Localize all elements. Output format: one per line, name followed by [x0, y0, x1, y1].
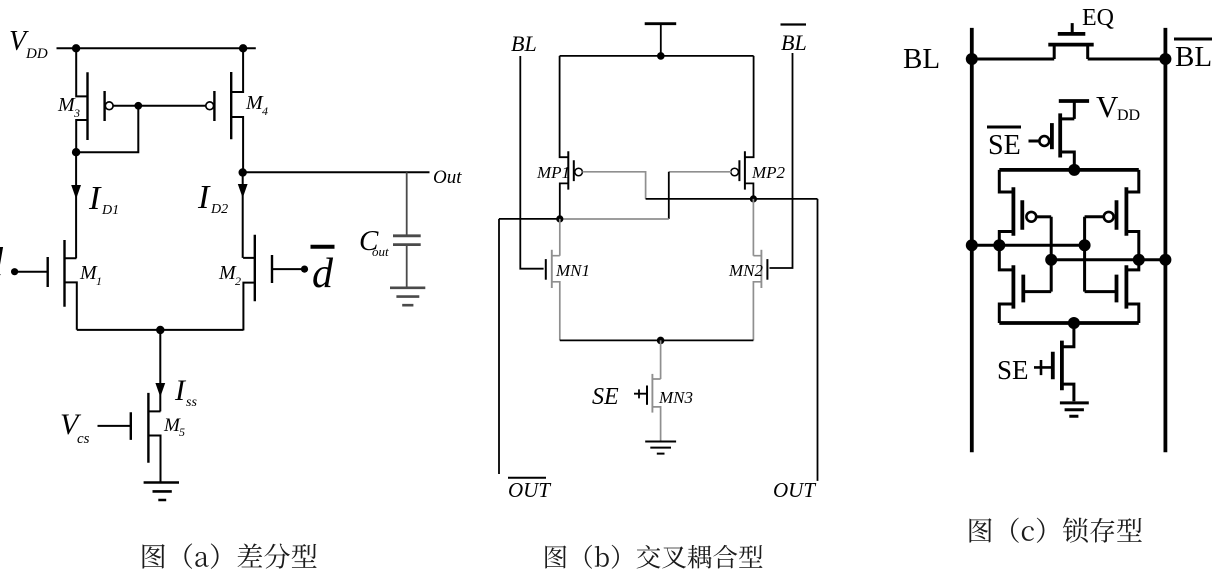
svg-text:Out: Out: [433, 167, 462, 188]
svg-text:SE: SE: [592, 384, 619, 410]
transistor MN1: [546, 219, 590, 341]
wire BLbar column: [770, 53, 793, 268]
wire M5 gate input: [98, 425, 131, 427]
power VDD tee: [1059, 99, 1089, 103]
svg-text:ss: ss: [186, 395, 197, 410]
svg-text:d: d: [0, 239, 4, 284]
wire left gates column: [1050, 217, 1053, 292]
wire Out: [243, 171, 430, 173]
wire VDD rail: [57, 47, 256, 49]
svg-text:D1: D1: [101, 203, 119, 218]
junction node OUTbar: [556, 215, 563, 222]
svg-text:4: 4: [262, 104, 268, 118]
svg-text:BL: BL: [781, 30, 807, 55]
wire M1 gate input: [15, 271, 48, 273]
wire latch top rail: [999, 168, 1139, 172]
svg-text:D2: D2: [210, 202, 228, 217]
junction latch tail: [1068, 317, 1080, 329]
transistor SEbar PMOS: [1029, 113, 1075, 169]
ground M5: [144, 483, 179, 501]
junction latch top: [1068, 164, 1080, 176]
junction Out node: [239, 168, 247, 176]
transistor MP1: [536, 56, 582, 219]
svg-text:MN3: MN3: [658, 388, 693, 407]
wire OUT column right: [817, 199, 819, 481]
wire M3 gate to M4 gate: [113, 105, 206, 107]
caption figure a: [142, 543, 316, 568]
transistor latch NMOS right: [1085, 260, 1139, 323]
junction right output: [1133, 254, 1145, 266]
junction right gates top: [1079, 239, 1091, 251]
wire cross couple upper: [972, 244, 1085, 247]
capacitor Cout: [393, 172, 421, 287]
transistor M4: [206, 48, 268, 172]
junction M3 drain node: [72, 148, 80, 156]
svg-text:V: V: [1096, 89, 1119, 124]
wire ID1 branch: [75, 152, 77, 258]
wire top rail: [560, 55, 754, 57]
svg-text:3: 3: [73, 106, 80, 120]
svg-text:MN1: MN1: [555, 261, 590, 280]
svg-text:5: 5: [179, 425, 185, 439]
svg-text:d: d: [312, 251, 334, 297]
wire cross couple lower: [1051, 258, 1165, 261]
wire ID2 branch: [242, 173, 244, 258]
svg-text:2: 2: [235, 274, 241, 288]
ground Cout: [390, 288, 425, 305]
svg-text:OUT: OUT: [508, 478, 551, 502]
svg-text:BL: BL: [511, 31, 537, 56]
wire node OUTbar: [499, 218, 560, 220]
junction VDD-M4: [239, 44, 247, 52]
wire MP1 gate cross-couple: [582, 172, 645, 199]
caption figure b: [545, 545, 762, 569]
power rail symbol: [645, 22, 677, 25]
svg-text:MP1: MP1: [536, 163, 570, 182]
transistor M5: [131, 393, 185, 482]
current arrow ID1: [71, 185, 81, 199]
transistor latch PMOS left: [999, 170, 1051, 245]
svg-text:MN2: MN2: [728, 261, 764, 280]
transistor EQ: [972, 23, 1166, 59]
wire BLbar column: [1164, 28, 1168, 452]
svg-text:I: I: [88, 180, 102, 217]
wire diode-connect M3: [76, 106, 138, 152]
terminal dot input dbar: [301, 266, 308, 273]
junction BLbar tap: [1159, 254, 1171, 266]
transistor M1: [48, 240, 102, 330]
wire BL column: [520, 56, 543, 269]
transistor SE NMOS: [1034, 323, 1074, 401]
junction BL tap: [966, 239, 978, 251]
junction BLbar-EQ: [1159, 53, 1171, 65]
junction BL-EQ: [966, 53, 978, 65]
svg-text:DD: DD: [25, 46, 48, 62]
transistor latch NMOS left: [999, 245, 1051, 323]
svg-text:EQ: EQ: [1082, 5, 1114, 31]
junction gate node: [134, 102, 142, 110]
svg-text:cs: cs: [77, 431, 90, 447]
svg-text:BL: BL: [1175, 41, 1212, 73]
transistor M2: [218, 235, 272, 331]
wire right gates column: [1083, 217, 1086, 292]
transistor MN2: [728, 199, 767, 341]
transistor latch PMOS right: [1085, 170, 1139, 260]
caption figure c: [969, 518, 1141, 543]
junction left gates: [1045, 254, 1057, 266]
junction left output: [993, 239, 1005, 251]
transistor M3: [57, 48, 113, 152]
svg-text:I: I: [197, 179, 211, 216]
junction VDD-M3: [72, 44, 80, 52]
svg-text:OUT: OUT: [773, 478, 816, 502]
svg-text:SE: SE: [988, 130, 1021, 161]
wire tail to M5: [159, 330, 161, 411]
junction top rail: [657, 52, 665, 60]
svg-text:DD: DD: [1117, 107, 1140, 124]
wire tail node: [77, 329, 244, 331]
svg-text:out: out: [372, 244, 389, 259]
wire latch bottom rail: [999, 321, 1139, 325]
wire node OUT: [646, 198, 818, 200]
junction node OUT: [750, 195, 757, 202]
ground MN3: [645, 442, 676, 454]
wire M2 gate input: [272, 268, 302, 270]
wire MP2 gate cross-couple: [669, 171, 731, 173]
svg-text:BL: BL: [903, 43, 940, 75]
transistor MP2: [731, 56, 786, 199]
ground SE: [1060, 403, 1089, 416]
transistor MN3: [634, 340, 693, 441]
wire OUTbar column left: [498, 219, 500, 474]
junction source rail: [657, 337, 665, 345]
terminal dot input d: [11, 268, 18, 275]
svg-text:MP2: MP2: [751, 163, 786, 182]
current arrow Iss: [155, 383, 165, 397]
wire BL column: [970, 28, 974, 452]
svg-text:SE: SE: [997, 355, 1029, 385]
svg-text:1: 1: [96, 274, 102, 288]
current arrow ID2: [238, 184, 248, 198]
junction tail: [156, 326, 164, 334]
wire source rail: [560, 339, 754, 341]
